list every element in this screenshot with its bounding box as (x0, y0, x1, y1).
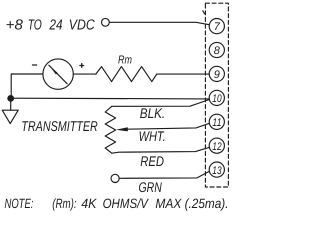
wire RED pot bottom to terminal 12 (112, 147, 210, 153)
terminal 11 (209, 114, 224, 129)
terminal 10 (209, 90, 224, 105)
svg-text:WHT.: WHT. (139, 128, 166, 144)
svg-text:MAX: MAX (155, 196, 182, 211)
label plus polarity (80, 64, 84, 68)
svg-text:(.25ma).: (.25ma). (185, 196, 229, 211)
wire left vertical meter branch (11, 74, 43, 98)
svg-text:8: 8 (214, 45, 221, 57)
terminal strip dashed border (205, 3, 228, 187)
svg-text:24: 24 (49, 18, 63, 34)
svg-text:BLK.: BLK. (140, 105, 165, 121)
terminal 7 (209, 19, 224, 34)
wire Rm to terminal 9 (157, 73, 209, 75)
wire BLK pot top to terminal 10 (112, 100, 210, 107)
note text (5, 196, 229, 211)
node supply open-circle terminal (102, 18, 110, 26)
svg-text:7: 7 (214, 21, 221, 33)
svg-text:4K: 4K (81, 196, 97, 211)
wire GRN to terminal 13 (119, 171, 209, 178)
terminal 13 (209, 162, 224, 177)
node GRN open-circle terminal (111, 174, 119, 182)
svg-text:13: 13 (212, 165, 222, 177)
svg-text:NOTE:: NOTE: (5, 196, 34, 211)
transmitter stem (10, 102, 12, 111)
tick mark near terminal strip corner (203, 11, 205, 14)
meter M1 body (43, 59, 73, 89)
svg-text:OHMS/V: OHMS/V (103, 196, 150, 211)
junction node dot (7, 95, 14, 102)
transmitter arrow symbol (2, 110, 18, 123)
terminal 8 (209, 42, 224, 57)
svg-text:RED: RED (140, 153, 164, 169)
label +8 TO 24 VDC (6, 18, 95, 34)
meter needle pointer (49, 66, 57, 75)
resistor Rm (96, 67, 157, 82)
svg-text:9: 9 (214, 69, 220, 81)
wire meter to Rm (73, 73, 96, 75)
potentiometer wiper arrow (116, 127, 128, 131)
svg-text:VDC: VDC (69, 18, 95, 34)
meter needle (49, 65, 67, 84)
wire supply to terminal 7 (109, 22, 209, 24)
svg-text:11: 11 (212, 117, 221, 129)
svg-text:GRN: GRN (139, 179, 163, 195)
svg-text:10: 10 (212, 93, 222, 105)
terminal 12 (209, 138, 224, 153)
svg-text:Rm: Rm (118, 53, 132, 66)
svg-text:+8: +8 (6, 18, 24, 34)
svg-text:TO: TO (28, 18, 42, 34)
svg-text:(Rm):: (Rm): (52, 196, 76, 211)
potentiometer R body (105, 106, 115, 153)
svg-text:12: 12 (212, 141, 221, 153)
wire WHT wiper to terminal 11 (127, 123, 210, 129)
wire junction to terminal 10 (11, 97, 210, 100)
terminal 9 (209, 66, 224, 81)
svg-text:TRANSMITTER: TRANSMITTER (21, 119, 98, 135)
label minus polarity (33, 64, 37, 66)
